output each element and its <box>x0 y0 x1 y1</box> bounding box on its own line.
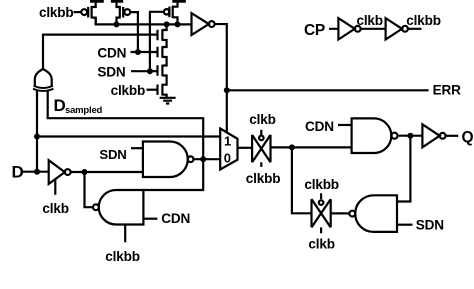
svg-text:clkbb: clkbb <box>406 13 441 28</box>
svg-text:0: 0 <box>224 151 231 166</box>
svg-text:clkb: clkb <box>357 13 383 28</box>
svg-text:clkbb: clkbb <box>111 83 146 98</box>
svg-text:sampled: sampled <box>65 105 103 116</box>
svg-text:ERR: ERR <box>433 83 461 98</box>
svg-text:SDN: SDN <box>99 147 126 162</box>
svg-text:clkbb: clkbb <box>39 5 74 20</box>
svg-text:clkbb: clkbb <box>105 249 140 264</box>
svg-text:D: D <box>54 96 66 115</box>
svg-text:SDN: SDN <box>97 65 125 80</box>
svg-text:CDN: CDN <box>97 46 126 61</box>
svg-text:clkbb: clkbb <box>246 171 281 186</box>
svg-text:Q: Q <box>462 129 474 146</box>
svg-text:clkb: clkb <box>42 201 68 216</box>
svg-text:CDN: CDN <box>161 211 190 226</box>
svg-text:clkb: clkb <box>249 112 275 127</box>
svg-text:clkb: clkb <box>308 237 334 252</box>
svg-text:clkbb: clkbb <box>304 177 339 192</box>
svg-text:1: 1 <box>224 133 231 148</box>
svg-text:SDN: SDN <box>416 218 444 233</box>
svg-text:CP: CP <box>304 22 325 39</box>
svg-text:D: D <box>12 163 24 182</box>
svg-text:CDN: CDN <box>305 119 334 134</box>
